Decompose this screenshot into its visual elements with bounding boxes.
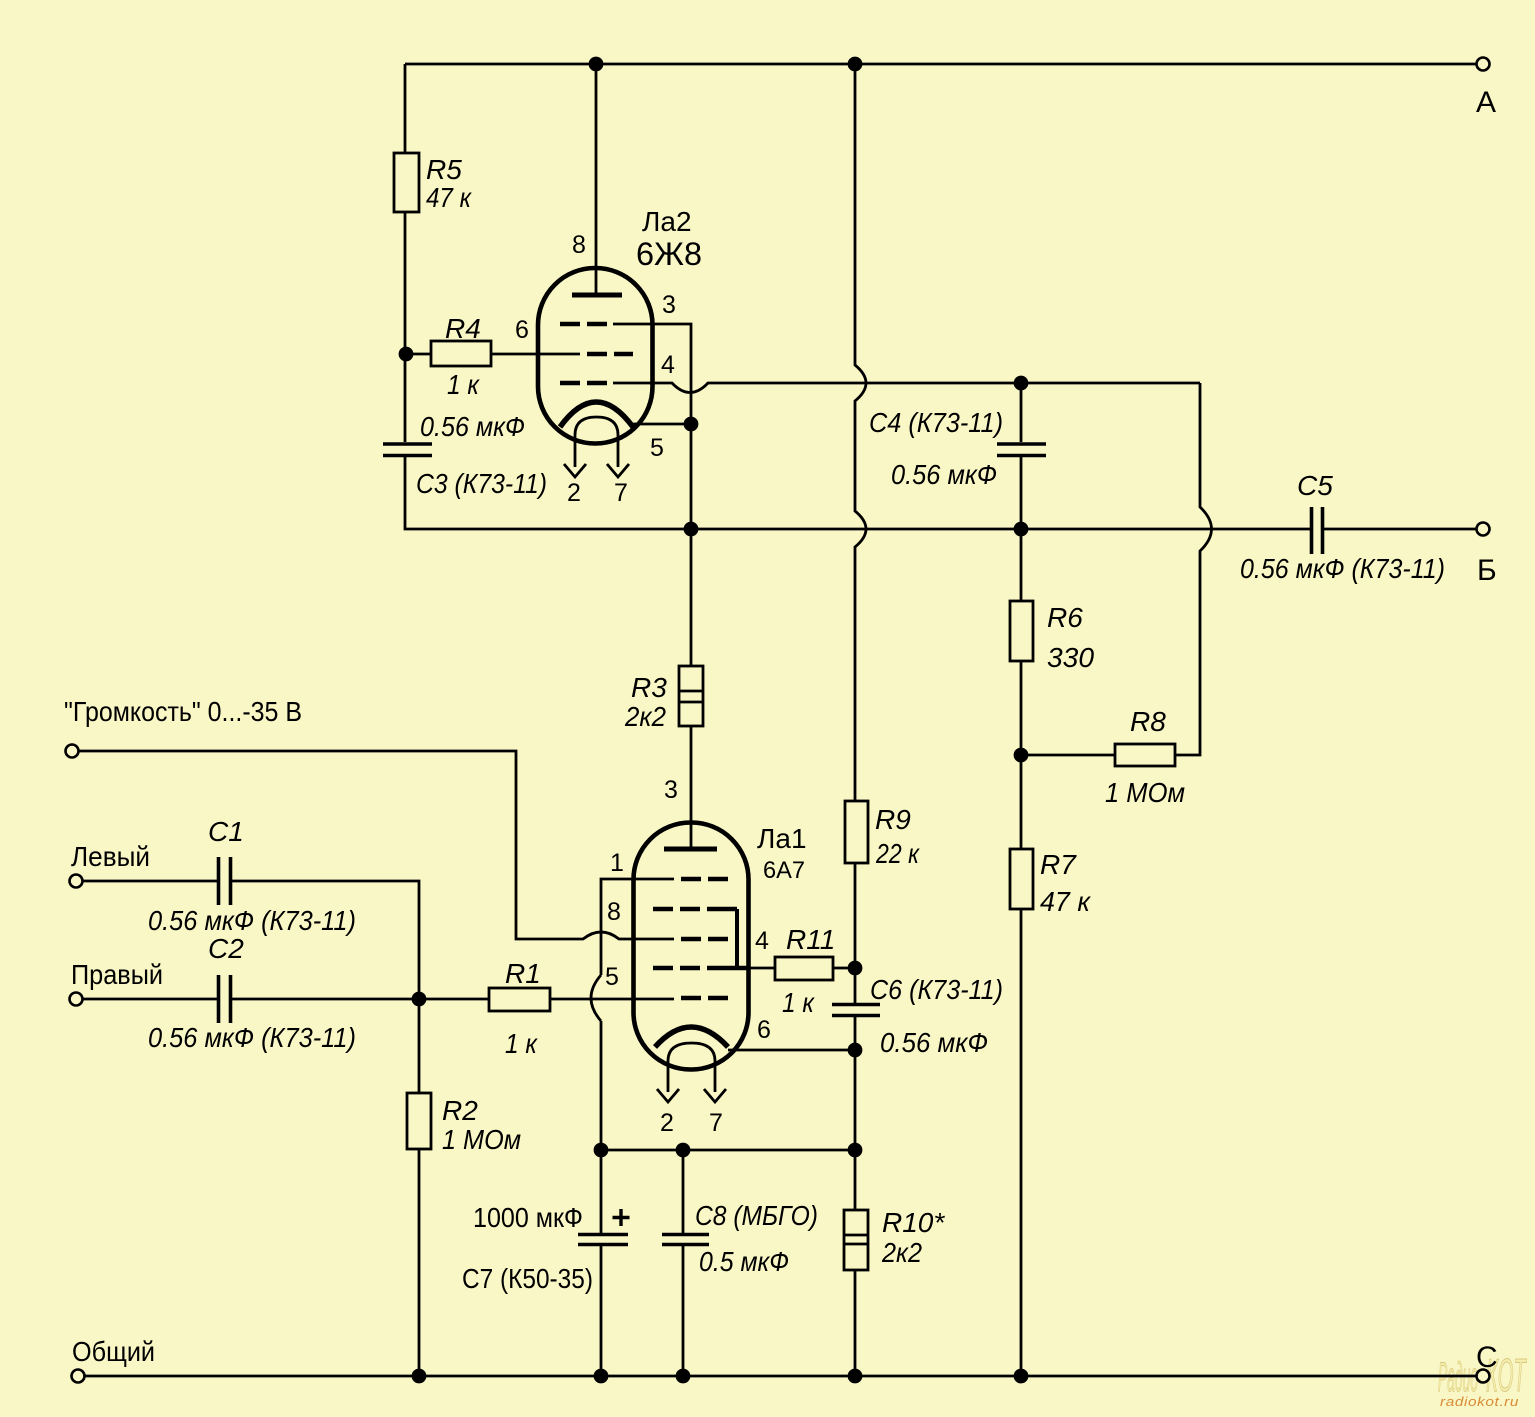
svg-text:47 к: 47 к xyxy=(1040,886,1092,917)
svg-text:С7 (К50-35): С7 (К50-35) xyxy=(462,1263,593,1294)
svg-text:С5: С5 xyxy=(1297,470,1333,501)
svg-text:0.56 мкФ (К73-11): 0.56 мкФ (К73-11) xyxy=(1240,553,1445,584)
wire R4 to La2 pin 6 grid xyxy=(491,353,580,356)
wire R5 bottom to R4 node xyxy=(404,212,407,353)
wire grid bias x1200 with hop xyxy=(1175,383,1212,755)
svg-text:Б: Б xyxy=(1477,554,1497,587)
svg-text:R10*: R10* xyxy=(882,1207,945,1238)
svg-text:R8: R8 xyxy=(1130,706,1166,737)
wire R6 top stub xyxy=(1020,529,1023,601)
wire C6 bottom to cathode node xyxy=(854,1017,857,1050)
wire R9 bottom to screen node xyxy=(854,863,857,968)
node top rail / R9 branch xyxy=(848,57,863,72)
resistor R5 xyxy=(394,153,419,212)
node bypass bus / C7 / pin1 xyxy=(594,1143,609,1158)
svg-text:47 к: 47 к xyxy=(426,182,473,213)
svg-text:R2: R2 xyxy=(442,1095,478,1126)
wire R3 bottom to La1 anode xyxy=(690,726,693,847)
svg-text:Общий: Общий xyxy=(72,1336,155,1367)
node ground / C7 xyxy=(594,1369,609,1384)
svg-text:0.56 мкФ (К73-11): 0.56 мкФ (К73-11) xyxy=(148,1022,356,1053)
La2 heater arrowhead pin 7 xyxy=(607,464,629,477)
resistor R11 xyxy=(775,957,833,980)
wire C3 bottom to cathode bus y529 xyxy=(405,457,1310,529)
La2 heater loop xyxy=(575,417,618,467)
wire node to R4 xyxy=(405,353,431,356)
node summing junction C1/C2/R1/R2 xyxy=(412,992,427,1007)
wire node down to C3 xyxy=(404,354,407,442)
node R4 / C3 junction xyxy=(399,347,414,362)
wire C7 top stub xyxy=(600,1150,603,1233)
La1 grid row 4 solid right exit xyxy=(707,966,750,971)
La1 heater arrowhead pin 7 xyxy=(704,1089,726,1102)
node ground / R7 xyxy=(1014,1369,1029,1384)
svg-text:R3: R3 xyxy=(631,672,667,703)
node cathode bus / C4 bottom xyxy=(1014,522,1029,537)
svg-text:6А7: 6А7 xyxy=(763,857,805,884)
wire cathode bus right of C5 to terminal B xyxy=(1324,528,1476,531)
La2 grid row 3 dashes (pin 4) xyxy=(560,381,612,386)
wire C8 top stub xyxy=(682,1150,685,1233)
capacitor C7 xyxy=(578,1235,628,1245)
wire R3 top stub from cathode node xyxy=(690,529,693,666)
svg-text:0.56 мкФ (К73-11): 0.56 мкФ (К73-11) xyxy=(148,905,356,936)
terminal Levyi xyxy=(70,875,83,888)
node R6/R7/R8 junction xyxy=(1014,748,1029,763)
watermark RadioKot logo xyxy=(1438,1350,1527,1402)
La1 grid row 2 dashes xyxy=(653,907,700,912)
svg-text:8: 8 xyxy=(607,898,621,926)
svg-text:R7: R7 xyxy=(1040,849,1077,880)
svg-text:330: 330 xyxy=(1047,642,1094,673)
capacitor C3 xyxy=(383,444,432,456)
wire cathode node down to bypass bus xyxy=(854,1050,857,1150)
node La2 cathode pin 5 xyxy=(684,417,699,432)
wire R10 top stub xyxy=(854,1150,857,1210)
svg-text:3: 3 xyxy=(662,291,676,319)
svg-text:radiokot.ru: radiokot.ru xyxy=(1440,1394,1519,1409)
svg-text:2: 2 xyxy=(567,479,581,507)
svg-text:С4 (К73-11): С4 (К73-11) xyxy=(869,407,1003,438)
terminal Gromkost xyxy=(66,745,79,758)
wire R8 left to node xyxy=(1021,754,1115,757)
svg-text:6: 6 xyxy=(757,1016,771,1044)
node ground / R10 xyxy=(848,1369,863,1384)
svg-text:С3 (К73-11): С3 (К73-11) xyxy=(416,468,547,499)
La1 heater arrowhead pin 2 xyxy=(657,1089,679,1102)
svg-text:1 к: 1 к xyxy=(447,369,481,400)
svg-text:6: 6 xyxy=(515,316,529,344)
terminal Obshchiy xyxy=(72,1370,85,1383)
wire Gromkost to La1 pin 8 with hop xyxy=(79,751,674,939)
wire C7 bottom to ground rail xyxy=(600,1246,603,1376)
wire R1 to La1 pin 5 xyxy=(550,998,674,1001)
tube La2 envelope xyxy=(538,268,653,444)
wire La1 pin 4 to R11 xyxy=(750,967,775,970)
svg-text:Ла2: Ла2 xyxy=(642,206,692,237)
wire La2 pin 8 anode drop xyxy=(595,64,598,295)
wire screen supply x855 upper with hops xyxy=(855,64,866,801)
capacitor C2 xyxy=(219,975,231,1023)
svg-text:0.5 мкФ: 0.5 мкФ xyxy=(699,1246,789,1277)
resistor R1 xyxy=(489,988,550,1011)
wire C4 top stub xyxy=(1020,383,1023,442)
wire La1 pin 1 entry and drop xyxy=(601,879,674,975)
svg-text:Левый: Левый xyxy=(71,841,150,872)
capacitor C6 xyxy=(832,1005,880,1016)
wire C2 to summing node and R1 xyxy=(232,998,489,1001)
terminal B xyxy=(1477,523,1490,536)
svg-text:А: А xyxy=(1476,86,1496,119)
La1 grid 2-4 tie bar xyxy=(735,909,739,968)
svg-text:4: 4 xyxy=(661,351,675,379)
wire R7 top stub xyxy=(1020,755,1023,849)
svg-text:R9: R9 xyxy=(875,804,911,835)
resistor R7 xyxy=(1010,849,1033,909)
resistor R3 xyxy=(679,666,703,726)
svg-text:R1: R1 xyxy=(505,958,541,989)
svg-text:1 МОм: 1 МОм xyxy=(442,1124,521,1155)
wire La2 pin 4 with hop over pin3 line xyxy=(613,383,1200,393)
La1 grid row 5 dashes (pin 5) xyxy=(681,996,728,1001)
svg-text:3: 3 xyxy=(664,776,678,804)
svg-text:R5: R5 xyxy=(426,154,462,185)
svg-text:1: 1 xyxy=(610,849,624,877)
svg-text:С2: С2 xyxy=(208,933,244,964)
svg-text:1 к: 1 к xyxy=(505,1028,539,1059)
svg-text:7: 7 xyxy=(709,1109,723,1137)
svg-text:1000 мкФ: 1000 мкФ xyxy=(473,1202,583,1233)
La1 grid row 3 dashes (pin 8) xyxy=(681,937,728,942)
wire R10 bottom to ground rail xyxy=(854,1270,857,1376)
resistor R10 power band xyxy=(844,1235,868,1244)
La2 cathode arc xyxy=(560,402,633,427)
resistor R9 xyxy=(845,801,868,863)
La1 grid row 1 dashes (pin 1) xyxy=(681,877,728,882)
capacitor C5 xyxy=(1312,507,1323,554)
svg-text:С8 (МБГО): С8 (МБГО) xyxy=(695,1200,818,1231)
svg-text:R4: R4 xyxy=(445,313,481,344)
wire Levyi to C1 xyxy=(83,880,217,883)
wire bypass bus y1150 xyxy=(601,1149,855,1152)
wire R6 bottom to R8 node xyxy=(1020,661,1023,755)
node cathode bus / La2 cathode branch xyxy=(684,522,699,537)
resistor R8 xyxy=(1115,744,1175,766)
svg-text:6Ж8: 6Ж8 xyxy=(636,236,702,272)
wire La1 cathode pin 6 to C6 node xyxy=(728,1049,855,1052)
svg-text:8: 8 xyxy=(572,231,586,259)
capacitor C4 xyxy=(997,444,1046,456)
terminal Pravyi xyxy=(70,993,83,1006)
svg-text:5: 5 xyxy=(605,963,619,991)
svg-text:0.56 мкФ: 0.56 мкФ xyxy=(880,1027,988,1058)
svg-text:5: 5 xyxy=(650,434,664,462)
svg-text:0.56 мкФ: 0.56 мкФ xyxy=(891,459,997,490)
capacitor C1 xyxy=(219,857,231,905)
node bypass bus right xyxy=(848,1143,863,1158)
wire R11 right to screen node xyxy=(833,967,855,970)
wire ground rail xyxy=(85,1375,1476,1378)
node bypass bus / C8 xyxy=(676,1143,691,1158)
wire left drop from rail to R5 xyxy=(404,64,407,153)
svg-text:22 к: 22 к xyxy=(875,838,920,869)
wire summing node down to R2 xyxy=(418,999,421,1093)
wire R2 bottom to ground rail xyxy=(418,1149,421,1376)
La2 anode bar xyxy=(572,293,622,298)
node C4 top on pin4 wire xyxy=(1014,376,1029,391)
svg-text:"Громкость" 0...-35 В: "Громкость" 0...-35 В xyxy=(64,696,302,727)
wire La2 cathode pin 5 to node xyxy=(630,423,691,426)
wire C1 to summing node xyxy=(232,881,419,999)
wire Pravyi to C2 xyxy=(83,998,217,1001)
wire pin1 line lower to C7 node xyxy=(600,1021,603,1150)
capacitor C7 plus sign xyxy=(613,1209,630,1226)
svg-text:1 МОм: 1 МОм xyxy=(1105,777,1185,808)
wire La2 cathode node down to bus xyxy=(690,424,693,529)
svg-text:С1: С1 xyxy=(208,816,244,847)
hop of pin1 line over R1 wire xyxy=(591,975,601,1021)
svg-text:0.56 мкФ: 0.56 мкФ xyxy=(420,411,525,442)
resistor R3 power band xyxy=(679,691,703,702)
tube La1 envelope xyxy=(634,823,749,1070)
node La1 cathode junction xyxy=(848,1043,863,1058)
svg-text:2к2: 2к2 xyxy=(881,1237,922,1268)
svg-text:Ла1: Ла1 xyxy=(757,823,807,854)
wire C6 top stub xyxy=(854,968,857,1003)
svg-text:1 к: 1 к xyxy=(782,987,816,1018)
wire top supply rail A xyxy=(405,63,1476,66)
svg-text:2: 2 xyxy=(660,1109,674,1137)
resistor R10 xyxy=(844,1210,868,1270)
wire La2 pin 3 to cathode node xyxy=(613,324,691,417)
capacitor C8 xyxy=(662,1235,709,1245)
svg-text:4: 4 xyxy=(755,927,769,955)
node top rail / La2 anode feed xyxy=(589,57,604,72)
resistor R6 xyxy=(1010,601,1033,661)
svg-text:С: С xyxy=(1476,1341,1498,1374)
wire R7 bottom to ground rail xyxy=(1020,909,1023,1376)
node ground / C8 xyxy=(676,1369,691,1384)
resistor R2 xyxy=(407,1093,431,1149)
terminal A xyxy=(1477,58,1490,71)
node ground / R2 xyxy=(412,1369,427,1384)
wire C4 bottom stub xyxy=(1020,457,1023,529)
svg-text:R6: R6 xyxy=(1047,602,1083,633)
wire C8 bottom to ground rail xyxy=(682,1246,685,1376)
resistor R4 xyxy=(431,341,491,366)
svg-text:Правый: Правый xyxy=(71,959,163,990)
La2 grid row 2 dashes (pin 6) xyxy=(587,352,633,357)
terminal C xyxy=(1477,1370,1490,1383)
La2 heater arrowhead pin 2 xyxy=(564,464,586,477)
svg-text:С6 (К73-11): С6 (К73-11) xyxy=(870,974,1003,1005)
svg-text:7: 7 xyxy=(614,479,628,507)
La1 heater loop xyxy=(668,1043,715,1092)
La1 grid row 2 solid right xyxy=(707,907,737,912)
svg-text:2к2: 2к2 xyxy=(624,701,666,732)
La1 anode bar xyxy=(664,847,717,852)
node R9/R11/C6 screen junction xyxy=(848,961,863,976)
La2 grid row 1 dashes (pin 3) xyxy=(560,322,612,327)
La1 grid row 4 dashes (pin 4) xyxy=(653,966,700,971)
La1 cathode arc xyxy=(655,1027,728,1047)
svg-text:R11: R11 xyxy=(786,924,835,955)
